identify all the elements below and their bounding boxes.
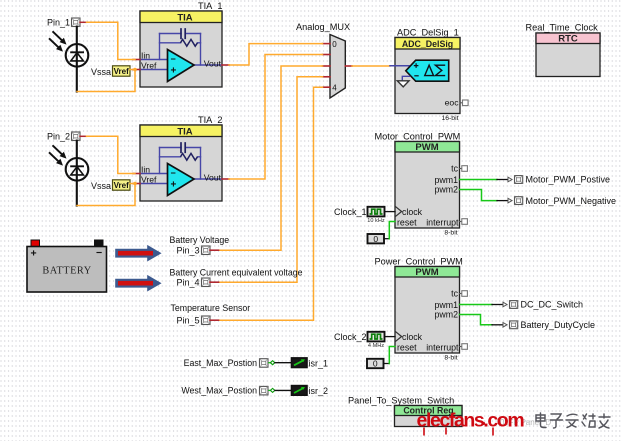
output pin DC_DC_Switch xyxy=(492,300,583,310)
wire mux output to ADC xyxy=(352,65,390,67)
battery positive terminal xyxy=(31,240,40,247)
TIA block TIA_1 xyxy=(140,11,222,87)
wire Vref terminal to TIA_2 Vref xyxy=(130,183,135,185)
wire Pin_3 to mux in2 xyxy=(219,66,323,250)
svg-text:0: 0 xyxy=(332,40,337,49)
svg-text:Vout: Vout xyxy=(204,59,222,69)
eoc output xyxy=(445,98,468,108)
Vref terminal label 1 xyxy=(113,66,131,76)
digital stub West_Max_Postion xyxy=(268,389,271,391)
wire TIA_2 Vout to mux in1 xyxy=(229,55,323,180)
watermark chinese characters xyxy=(536,413,610,428)
wire Motor pwm1 out xyxy=(460,179,498,181)
digital stub East_Max_Postion xyxy=(268,362,271,364)
Pin_4 stub xyxy=(210,281,219,283)
svg-text:PWM: PWM xyxy=(415,142,438,153)
svg-text:Motor_PWM_Negative: Motor_PWM_Negative xyxy=(526,196,617,206)
photodiode under Pin_2 xyxy=(66,141,89,206)
svg-text:West_Max_Postion: West_Max_Postion xyxy=(181,386,257,396)
Power_Control_PWM clock input chevron xyxy=(395,331,402,342)
mux output stub xyxy=(345,65,352,67)
svg-text:Vref: Vref xyxy=(114,67,129,76)
svg-text:pwm1: pwm1 xyxy=(435,175,459,185)
TIA_1 port stubs (red terminals) xyxy=(133,60,229,70)
svg-text:8-bit: 8-bit xyxy=(444,230,457,237)
svg-text:Motor_Control_PWM: Motor_Control_PWM xyxy=(375,132,461,142)
constant 0 for Motor reset xyxy=(368,234,385,244)
wire to isr_1 xyxy=(275,362,292,364)
pin East_Max_Postion xyxy=(184,358,268,368)
Pin_5 stub xyxy=(210,319,219,321)
ground symbol xyxy=(397,81,409,87)
wire to isr_2 xyxy=(275,389,292,391)
wire TIA_1 Vout to mux in0 xyxy=(229,44,323,65)
svg-text:reset: reset xyxy=(397,217,417,227)
op-amp inside TIA_1 xyxy=(168,50,195,82)
wire Power pwm1 out xyxy=(460,304,493,306)
TIA_2 feedback capacitor xyxy=(181,143,185,152)
Motor_Control_PWM tc output xyxy=(451,164,467,174)
ADC input wire (blue) xyxy=(390,65,409,67)
svg-text:Iin: Iin xyxy=(141,164,150,174)
svg-text:−: − xyxy=(171,54,176,64)
TIA_2 port stubs (red terminals) xyxy=(133,174,229,184)
TIA_2 feedback resistor xyxy=(181,153,198,160)
constant 0 for Power reset xyxy=(367,359,384,369)
flow arrow 1 xyxy=(116,246,160,260)
mux input stubs xyxy=(323,44,331,88)
watermark elecfans.com xyxy=(417,410,525,436)
Motor_Control_PWM clock input chevron xyxy=(395,206,402,217)
wire Power pwm2 out xyxy=(460,315,493,325)
interrupt component isr_2 xyxy=(292,386,308,396)
svg-text:Real_Time_Clock: Real_Time_Clock xyxy=(526,23,599,33)
svg-text:Power_Control_PWM: Power_Control_PWM xyxy=(375,257,463,267)
svg-text:16-bit: 16-bit xyxy=(441,115,458,122)
svg-text:Battery Current equivalent vol: Battery Current equivalent voltage xyxy=(170,268,303,278)
clock source Clock_1 xyxy=(334,207,385,217)
svg-text:ADC_DelSig: ADC_DelSig xyxy=(402,39,453,49)
svg-text:East_Max_Postion: East_Max_Postion xyxy=(184,358,257,368)
svg-text:tc: tc xyxy=(451,164,458,174)
svg-text:TIA: TIA xyxy=(177,127,192,138)
wire Motor pwm2 out xyxy=(460,190,498,201)
svg-text:clock: clock xyxy=(402,332,423,342)
svg-text:RTC: RTC xyxy=(558,34,578,45)
control register block xyxy=(395,406,463,427)
clock source Clock_2 xyxy=(334,332,385,342)
svg-text:0: 0 xyxy=(373,359,378,369)
svg-text:Vssa: Vssa xyxy=(91,67,111,77)
svg-text:Pin_3: Pin_3 xyxy=(176,246,199,256)
svg-text:interrupt: interrupt xyxy=(426,342,459,352)
analog mux AMux body xyxy=(330,35,345,99)
Pin_3 stub xyxy=(210,249,219,251)
pin Pin_5 xyxy=(176,316,210,326)
TIA_1 feedback resistor xyxy=(181,39,198,46)
svg-text:Vout: Vout xyxy=(204,173,222,183)
battery body xyxy=(27,247,107,293)
svg-text:clock: clock xyxy=(402,207,423,217)
PWM block Motor_Control_PWM xyxy=(395,142,460,229)
RTC block xyxy=(536,33,600,77)
svg-text:isr_1: isr_1 xyxy=(309,359,329,369)
svg-text:4: 4 xyxy=(332,84,337,93)
svg-text:DC_DC_Switch: DC_DC_Switch xyxy=(521,300,584,310)
TIA block TIA_2 xyxy=(140,125,222,201)
svg-text:4 MHz: 4 MHz xyxy=(368,343,384,349)
svg-text:10 kHz: 10 kHz xyxy=(367,218,385,224)
wire Clock_2 to Power clock xyxy=(385,336,396,338)
TIA_1 internal wires xyxy=(140,34,222,70)
TIA_2 port labels xyxy=(141,164,222,184)
svg-text:Battery Voltage: Battery Voltage xyxy=(170,235,230,245)
svg-text:TIA: TIA xyxy=(177,13,192,24)
Vref terminal label 2 xyxy=(113,180,131,190)
op-amp inside TIA_2 xyxy=(168,164,195,196)
svg-text:TIA_1: TIA_1 xyxy=(198,1,223,11)
Power_Control_PWM tc output xyxy=(451,289,467,299)
output pin Battery_DutyCycle xyxy=(492,320,595,330)
wire ADC minus input to ground xyxy=(402,76,409,80)
wire Clock_1 to Motor clock xyxy=(385,211,396,213)
svg-text:Vref: Vref xyxy=(114,181,129,190)
wire Vref terminal to TIA_1 Vref xyxy=(130,69,135,71)
svg-text:isr_2: isr_2 xyxy=(309,386,329,396)
svg-text:Vref: Vref xyxy=(141,175,157,185)
svg-text:Temperature Sensor: Temperature Sensor xyxy=(171,303,251,313)
svg-text:Analog_MUX: Analog_MUX xyxy=(296,22,350,32)
svg-text:tc: tc xyxy=(451,289,458,299)
PWM block Power_Control_PWM xyxy=(395,267,460,354)
svg-text:+: + xyxy=(31,248,37,260)
light arrows into photodiode Pin_2 xyxy=(49,145,67,165)
light arrows into photodiode Pin_1 xyxy=(49,31,67,51)
photodiode under Pin_1 xyxy=(66,27,89,92)
svg-text:elecfans.com: elecfans.com xyxy=(417,410,525,432)
svg-text:pwm1: pwm1 xyxy=(435,300,459,310)
svg-text:reset: reset xyxy=(397,342,417,352)
svg-text:Clock_1: Clock_1 xyxy=(334,207,367,217)
svg-text:+: + xyxy=(171,180,177,191)
svg-text:+: + xyxy=(171,66,177,77)
svg-text:Iin: Iin xyxy=(141,50,150,60)
TIA_1 port labels xyxy=(141,50,222,70)
svg-text:Pin_5: Pin_5 xyxy=(176,316,199,326)
pin West_Max_Postion xyxy=(181,386,268,396)
pin Pin_1 xyxy=(47,18,80,28)
ADC_DelSig_1 block xyxy=(395,38,460,114)
pin Pin_3 xyxy=(176,246,210,256)
svg-text:8-bit: 8-bit xyxy=(444,355,457,362)
Motor_Control_PWM interrupt output xyxy=(426,217,467,227)
wire Pin_2 to TIA_2 Iin xyxy=(80,135,87,137)
svg-text:PWM: PWM xyxy=(415,267,438,278)
svg-text:Pin_2: Pin_2 xyxy=(47,132,70,142)
svg-text:Vssa: Vssa xyxy=(91,181,111,191)
svg-text:Battery_DutyCycle: Battery_DutyCycle xyxy=(521,320,596,330)
svg-text:interrupt: interrupt xyxy=(426,217,459,227)
output pin Motor_PWM_Postive xyxy=(497,175,610,185)
svg-text:TIA_2: TIA_2 xyxy=(198,115,223,125)
pin Pin_4 xyxy=(176,278,210,288)
wire photodiode1 bottom return to Vref node xyxy=(77,70,135,92)
wire Pin_5 to mux in4 xyxy=(219,87,323,320)
wire 0 to Motor reset xyxy=(384,238,389,240)
svg-text:pwm2: pwm2 xyxy=(435,185,459,195)
wire Pin_1 to TIA_1 Iin xyxy=(80,21,87,23)
delta sigma modulator symbol xyxy=(406,60,449,81)
output pin Motor_PWM_Negative xyxy=(497,196,616,206)
svg-text:Vref: Vref xyxy=(141,61,157,71)
svg-text:BATTERY: BATTERY xyxy=(42,266,91,277)
svg-text:ADC_DelSig_1: ADC_DelSig_1 xyxy=(397,28,459,38)
svg-text:Pin_1: Pin_1 xyxy=(47,18,70,28)
flow arrow 2 xyxy=(116,276,160,290)
svg-text:−: − xyxy=(171,168,176,178)
TIA_2 internal wires xyxy=(140,148,222,184)
battery negative terminal xyxy=(95,240,104,247)
svg-text:Clock_2: Clock_2 xyxy=(334,332,367,342)
svg-text:0: 0 xyxy=(373,234,378,244)
svg-text:Panel_To_System_Switch: Panel_To_System_Switch xyxy=(348,396,454,406)
TIA_1 feedback capacitor xyxy=(181,29,185,38)
pin Pin_2 xyxy=(47,132,80,142)
wire 0 to Power reset xyxy=(384,363,390,365)
svg-text:Pin_4: Pin_4 xyxy=(176,278,199,288)
Power_Control_PWM interrupt output xyxy=(426,342,467,352)
svg-text:Motor_PWM_Postive: Motor_PWM_Postive xyxy=(526,175,611,185)
wire photodiode2 bottom return to Vref node xyxy=(77,184,135,206)
svg-text:−: − xyxy=(96,247,102,259)
svg-text:pwm2: pwm2 xyxy=(435,310,459,320)
svg-text:eoc: eoc xyxy=(445,98,460,108)
wire Pin_4 to mux in3 xyxy=(219,77,323,282)
interrupt component isr_1 xyxy=(292,358,308,368)
